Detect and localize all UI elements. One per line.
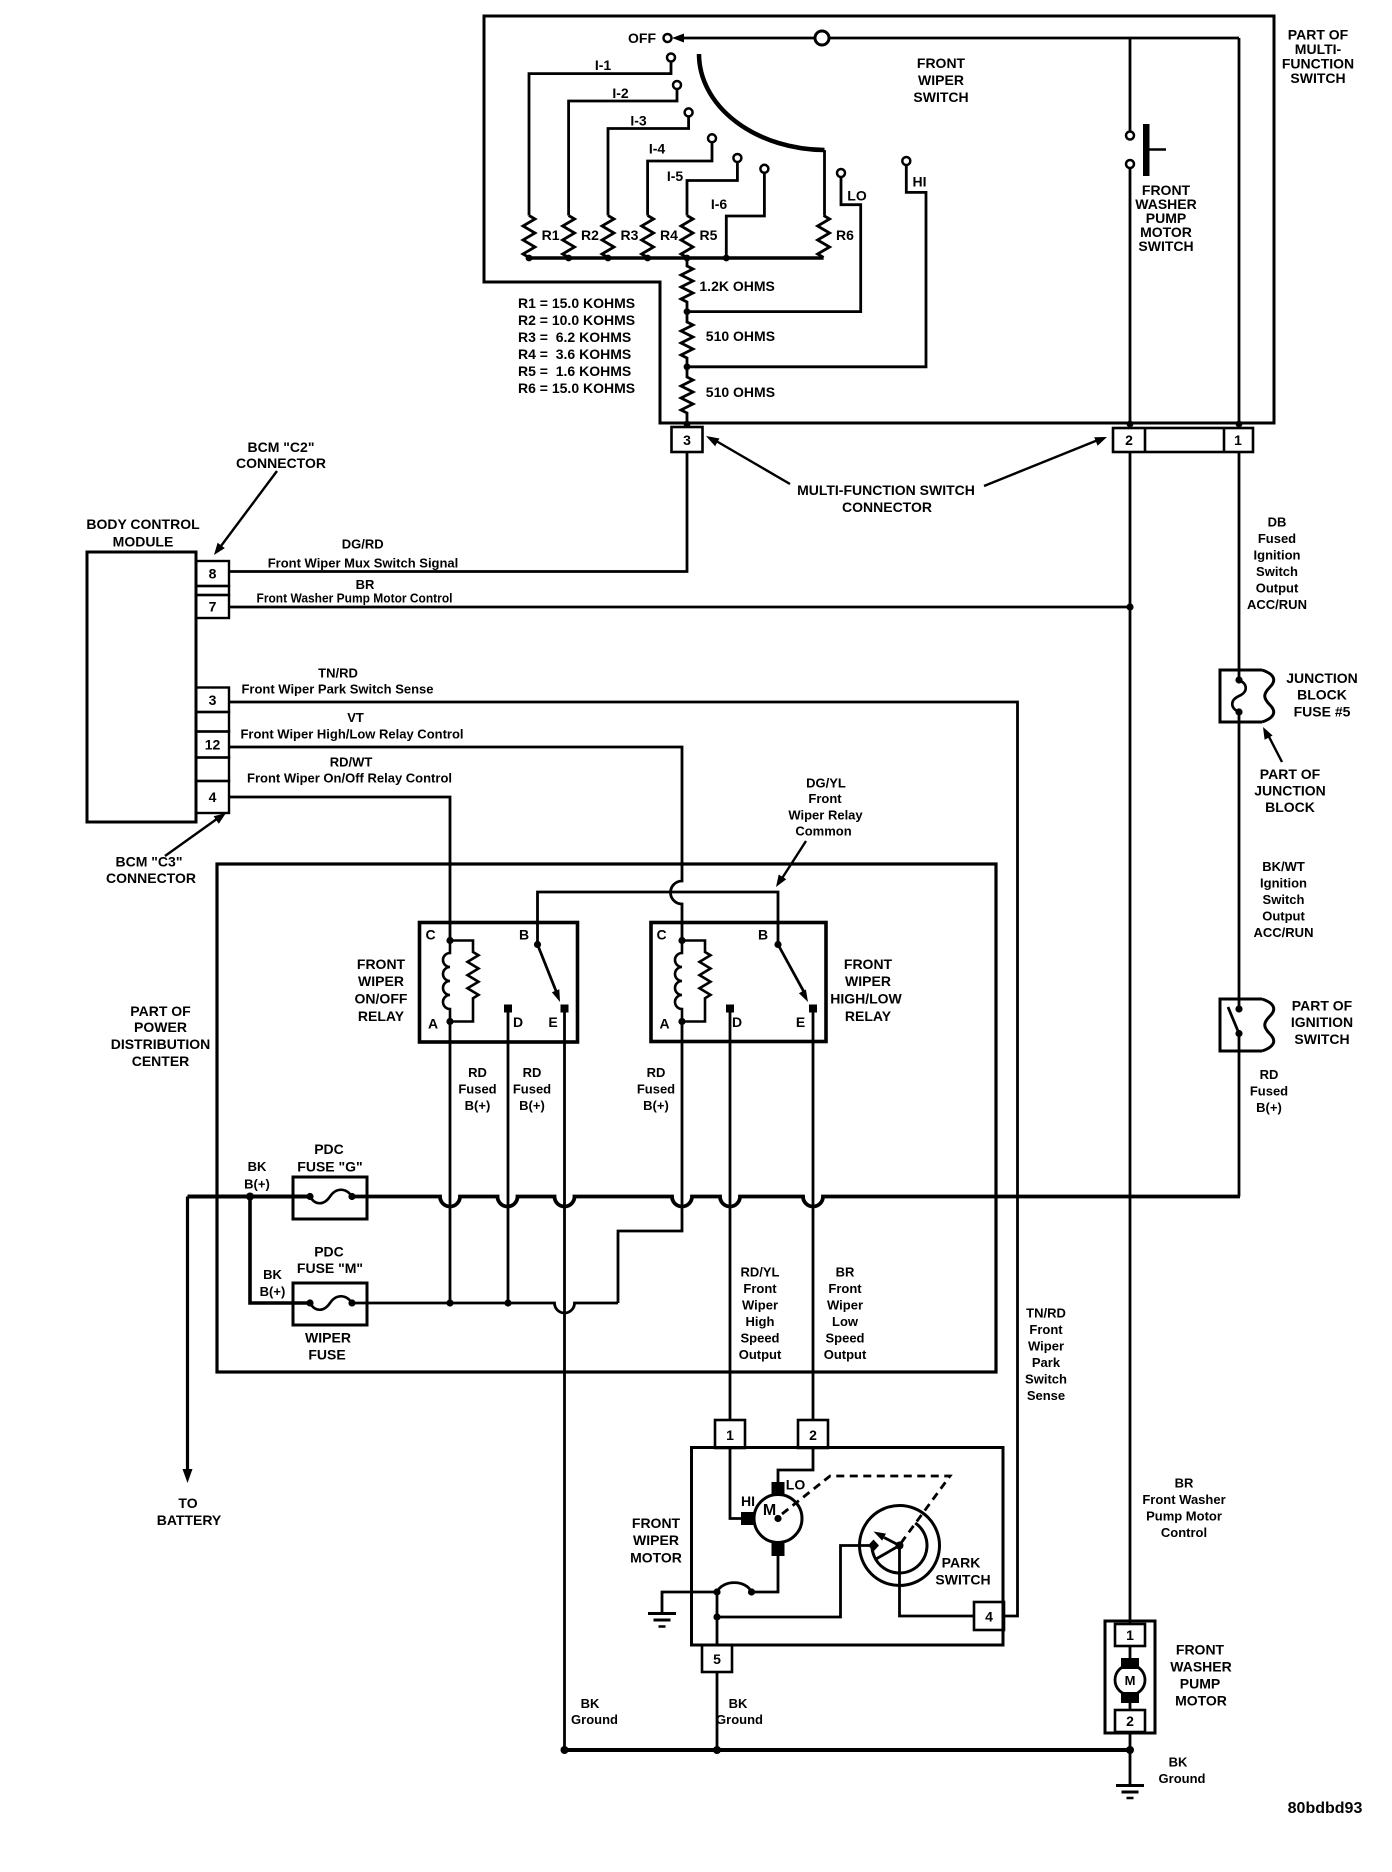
svg-text:MOTOR: MOTOR [1175,1693,1227,1709]
svg-text:Front Washer: Front Washer [1142,1492,1225,1507]
svg-text:WIPER: WIPER [305,1330,351,1346]
svg-text:D: D [513,1014,523,1030]
svg-text:B(+): B(+) [465,1098,491,1113]
svg-text:R1 = 15.0 KOHMS: R1 = 15.0 KOHMS [518,295,635,311]
svg-text:D: D [732,1014,742,1030]
svg-text:POWER: POWER [134,1019,187,1035]
svg-text:CONNECTOR: CONNECTOR [106,870,196,886]
svg-text:Ground: Ground [1159,1771,1206,1786]
svg-text:BODY CONTROL: BODY CONTROL [86,516,200,532]
svg-text:Fused: Fused [637,1082,675,1097]
svg-text:RELAY: RELAY [845,1008,892,1024]
svg-text:RELAY: RELAY [358,1008,405,1024]
svg-text:BK: BK [581,1696,600,1711]
svg-text:HIGH/LOW: HIGH/LOW [830,991,902,1007]
svg-text:Park: Park [1032,1355,1061,1370]
svg-text:CONNECTOR: CONNECTOR [842,499,932,515]
svg-text:B: B [758,927,768,943]
svg-text:Output: Output [1262,909,1305,924]
svg-text:I-6: I-6 [711,196,728,212]
svg-text:A: A [428,1016,438,1032]
svg-text:SWITCH: SWITCH [1290,70,1345,86]
svg-text:Front: Front [743,1281,777,1296]
svg-text:Fused: Fused [1250,1084,1288,1099]
svg-text:M: M [763,1502,776,1519]
svg-text:Fused: Fused [1258,531,1296,546]
svg-text:Wiper Relay: Wiper Relay [788,808,863,823]
svg-text:PART OF: PART OF [1260,766,1321,782]
svg-text:RD/YL: RD/YL [741,1265,780,1280]
svg-text:4: 4 [209,789,217,805]
svg-text:FRONT: FRONT [917,55,966,71]
svg-text:R4: R4 [660,227,678,243]
svg-text:Ground: Ground [716,1712,763,1727]
svg-text:B(+): B(+) [643,1098,669,1113]
svg-text:RD: RD [647,1065,666,1080]
svg-text:Low: Low [832,1314,859,1329]
svg-text:SWITCH: SWITCH [1138,238,1193,254]
svg-text:DG/YL: DG/YL [806,776,846,791]
svg-text:Switch: Switch [1256,564,1298,579]
svg-text:1: 1 [726,1427,734,1443]
svg-text:B(+): B(+) [260,1284,286,1299]
svg-text:PDC: PDC [314,1141,344,1157]
svg-text:Ignition: Ignition [1254,548,1301,563]
svg-text:Fused: Fused [513,1082,551,1097]
svg-text:80bdbd93: 80bdbd93 [1288,1800,1363,1817]
svg-text:R5: R5 [700,227,718,243]
svg-text:FRONT: FRONT [844,956,893,972]
svg-text:I-1: I-1 [595,57,612,73]
svg-text:OFF: OFF [628,30,656,46]
svg-text:Wiper: Wiper [742,1298,778,1313]
svg-text:C: C [656,927,666,943]
svg-text:1: 1 [1234,432,1242,448]
svg-text:DB: DB [1268,515,1287,530]
svg-text:Front Wiper On/Off Relay Contr: Front Wiper On/Off Relay Control [247,771,452,786]
svg-text:Speed: Speed [740,1331,779,1346]
svg-text:BLOCK: BLOCK [1297,687,1347,703]
svg-text:WIPER: WIPER [845,973,891,989]
svg-text:R6 = 15.0 KOHMS: R6 = 15.0 KOHMS [518,380,635,396]
svg-text:FUSE #5: FUSE #5 [1294,704,1351,720]
svg-text:R3 = 6.2 KOHMS: R3 = 6.2 KOHMS [518,329,631,345]
svg-text:BK: BK [263,1267,282,1282]
svg-text:CENTER: CENTER [132,1053,190,1069]
svg-text:Pump Motor: Pump Motor [1146,1509,1222,1524]
svg-text:RD: RD [468,1065,487,1080]
svg-text:1: 1 [1126,1627,1134,1643]
svg-text:3: 3 [209,692,217,708]
svg-text:BR: BR [1175,1476,1194,1491]
svg-text:FUSE "M": FUSE "M" [297,1260,363,1276]
svg-text:RD/WT: RD/WT [330,755,373,770]
svg-text:8: 8 [209,566,217,582]
svg-text:M: M [1125,1673,1136,1688]
svg-text:B(+): B(+) [519,1098,545,1113]
svg-text:ACC/RUN: ACC/RUN [1247,597,1307,612]
svg-text:2: 2 [1126,1713,1134,1729]
svg-text:510 OHMS: 510 OHMS [706,328,775,344]
svg-text:HI: HI [913,174,927,190]
svg-text:BLOCK: BLOCK [1265,799,1315,815]
svg-text:SWITCH: SWITCH [913,89,968,105]
svg-text:WIPER: WIPER [918,72,964,88]
svg-text:4: 4 [985,1609,993,1625]
svg-text:DISTRIBUTION: DISTRIBUTION [111,1036,211,1052]
svg-text:CONNECTOR: CONNECTOR [236,455,326,471]
svg-text:I-4: I-4 [649,141,666,157]
svg-text:FRONT: FRONT [357,956,406,972]
svg-text:5: 5 [713,1651,721,1667]
svg-text:TO: TO [178,1495,197,1511]
svg-text:Sense: Sense [1027,1388,1065,1403]
svg-text:WIPER: WIPER [358,973,404,989]
svg-text:BK: BK [248,1159,267,1174]
svg-text:FRONT: FRONT [632,1515,681,1531]
svg-text:Common: Common [795,824,851,839]
svg-text:FUSE: FUSE [308,1347,345,1363]
svg-text:2: 2 [1125,432,1133,448]
svg-text:BCM "C2": BCM "C2" [248,439,315,455]
svg-text:R6: R6 [836,227,854,243]
svg-text:Ignition: Ignition [1260,876,1307,891]
svg-text:R1: R1 [542,227,560,243]
svg-text:BK/WT: BK/WT [1262,859,1305,874]
svg-text:PDC: PDC [314,1244,344,1260]
svg-text:I-3: I-3 [630,113,647,129]
svg-text:Front Wiper Mux Switch Signal: Front Wiper Mux Switch Signal [268,556,459,571]
svg-text:HI: HI [741,1493,755,1509]
svg-text:SWITCH: SWITCH [1294,1031,1349,1047]
svg-text:R3: R3 [621,227,639,243]
svg-text:Wiper: Wiper [827,1298,863,1313]
svg-text:RD: RD [1260,1067,1279,1082]
svg-text:Wiper: Wiper [1028,1339,1064,1354]
svg-text:2: 2 [809,1427,817,1443]
svg-text:FUSE "G": FUSE "G" [297,1159,362,1175]
svg-text:VT: VT [347,710,364,725]
svg-text:C: C [425,927,435,943]
svg-text:I-2: I-2 [612,85,629,101]
svg-text:Ground: Ground [571,1712,618,1727]
svg-text:ON/OFF: ON/OFF [355,991,408,1007]
svg-text:R4 = 3.6 KOHMS: R4 = 3.6 KOHMS [518,346,631,362]
svg-text:JUNCTION: JUNCTION [1254,783,1326,799]
svg-text:A: A [659,1016,669,1032]
svg-text:Front Wiper High/Low Relay Con: Front Wiper High/Low Relay Control [240,727,463,742]
svg-text:Front: Front [828,1281,862,1296]
svg-text:R2 = 10.0 KOHMS: R2 = 10.0 KOHMS [518,312,635,328]
svg-text:MODULE: MODULE [113,534,174,550]
svg-text:BR: BR [836,1265,855,1280]
svg-text:TN/RD: TN/RD [318,666,358,681]
svg-text:Speed: Speed [825,1331,864,1346]
svg-text:JUNCTION: JUNCTION [1286,670,1358,686]
svg-text:BATTERY: BATTERY [157,1512,222,1528]
svg-text:Output: Output [824,1347,867,1362]
svg-text:12: 12 [205,737,221,753]
svg-text:Fused: Fused [458,1082,496,1097]
svg-text:B: B [519,927,529,943]
svg-text:ACC/RUN: ACC/RUN [1254,925,1314,940]
svg-text:MULTI-FUNCTION SWITCH: MULTI-FUNCTION SWITCH [797,482,975,498]
svg-text:R5 = 1.6 KOHMS: R5 = 1.6 KOHMS [518,363,631,379]
svg-text:PARK: PARK [942,1555,981,1571]
svg-text:Output: Output [1256,581,1299,596]
svg-text:PUMP: PUMP [1180,1676,1220,1692]
svg-text:Front: Front [808,791,842,806]
svg-text:RD: RD [523,1065,542,1080]
svg-text:LO: LO [847,188,867,204]
svg-text:E: E [796,1014,805,1030]
svg-text:DG/RD: DG/RD [342,537,384,552]
svg-text:IGNITION: IGNITION [1291,1014,1353,1030]
svg-text:WIPER: WIPER [633,1532,679,1548]
svg-text:Switch: Switch [1025,1372,1067,1387]
svg-text:BCM "C3": BCM "C3" [116,854,183,870]
svg-text:TN/RD: TN/RD [1026,1306,1066,1321]
svg-text:LO: LO [786,1477,806,1493]
svg-text:PART OF: PART OF [130,1003,191,1019]
svg-text:7: 7 [209,599,217,615]
svg-text:Front: Front [1029,1322,1063,1337]
svg-text:3: 3 [683,432,691,448]
svg-text:MOTOR: MOTOR [630,1550,682,1566]
svg-text:I-5: I-5 [667,168,684,184]
svg-text:Control: Control [1161,1525,1207,1540]
svg-text:B(+): B(+) [1256,1100,1282,1115]
svg-text:High: High [746,1314,775,1329]
svg-text:BK: BK [1169,1755,1188,1770]
svg-text:R2: R2 [581,227,599,243]
svg-text:Output: Output [739,1347,782,1362]
svg-text:Switch: Switch [1263,892,1305,907]
svg-text:Front Washer Pump Motor Contro: Front Washer Pump Motor Control [257,591,453,606]
svg-text:BK: BK [729,1696,748,1711]
svg-text:FRONT: FRONT [1176,1642,1225,1658]
svg-text:PART OF: PART OF [1292,998,1353,1014]
svg-text:Front Wiper Park Switch Sense: Front Wiper Park Switch Sense [241,682,433,697]
svg-text:1.2K OHMS: 1.2K OHMS [699,278,774,294]
svg-text:B(+): B(+) [244,1177,270,1192]
svg-text:510 OHMS: 510 OHMS [706,384,775,400]
svg-text:SWITCH: SWITCH [935,1572,990,1588]
svg-text:WASHER: WASHER [1170,1659,1231,1675]
svg-text:E: E [548,1014,557,1030]
